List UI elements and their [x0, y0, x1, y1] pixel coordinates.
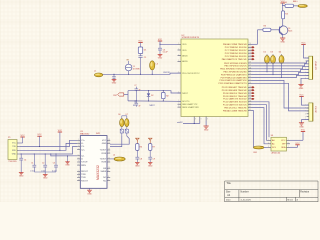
svg-text:39: 39	[249, 100, 251, 102]
svg-text:T1OUT: T1OUT	[100, 150, 107, 152]
svg-text:5: 5	[305, 116, 306, 118]
svg-text:3: 3	[305, 111, 306, 113]
svg-text:34: 34	[249, 86, 251, 88]
svg-text:1: 1	[178, 43, 179, 45]
svg-text:6: 6	[78, 158, 79, 160]
svg-text:1: 1	[178, 103, 179, 105]
svg-text:PA9 USART1TX: PA9 USART1TX	[182, 103, 198, 106]
svg-text:1: 1	[178, 106, 179, 108]
svg-text:6: 6	[288, 143, 289, 145]
svg-text:0.1uF: 0.1uF	[163, 52, 169, 54]
svg-text:GND: GND	[280, 42, 285, 44]
svg-text:Number: Number	[241, 190, 249, 193]
svg-text:PD9 FSMCD14 USART3RX: PD9 FSMCD14 USART3RX	[221, 76, 248, 79]
svg-text:11: 11	[78, 176, 80, 178]
svg-text:PC6 TIM8CH1 SDIOD6: PC6 TIM8CH1 SDIOD6	[225, 47, 248, 49]
svg-text:9: 9	[108, 170, 109, 172]
svg-text:PC11 UART4RX SDIOD3: PC11 UART4RX SDIOD3	[223, 101, 247, 104]
svg-text:5: 5	[78, 155, 79, 157]
svg-text:SDA: SDA	[281, 146, 286, 149]
svg-text:C1-: C1-	[81, 146, 85, 148]
svg-text:NRST: NRST	[150, 105, 156, 107]
svg-text:PB14 SPI2MISO TIM1CH2N: PB14 SPI2MISO TIM1CH2N	[220, 69, 247, 71]
svg-text:R2IN: R2IN	[81, 165, 86, 167]
svg-text:26: 26	[249, 62, 251, 64]
svg-text:VCC: VCC	[299, 95, 304, 97]
svg-text:40: 40	[249, 103, 251, 105]
svg-text:T2OUT: T2OUT	[81, 162, 88, 164]
svg-text:13: 13	[108, 152, 110, 154]
svg-text:4: 4	[78, 148, 79, 150]
svg-text:1: 1	[268, 139, 269, 141]
svg-text:GND: GND	[19, 176, 24, 178]
svg-text:1: 1	[178, 49, 179, 51]
svg-text:PB13 SPI2SCK I2S2CK: PB13 SPI2SCK I2S2CK	[224, 66, 247, 68]
svg-text:1: 1	[178, 60, 179, 62]
svg-text:PB12 SPI2NSS I2S2WS: PB12 SPI2NSS I2S2WS	[224, 63, 247, 65]
svg-text:T2OUT: T2OUT	[100, 159, 107, 161]
svg-text:K1: K1	[133, 105, 135, 107]
svg-text:25: 25	[249, 58, 251, 60]
svg-text:R2: R2	[166, 95, 168, 97]
svg-text:D6: D6	[118, 114, 120, 116]
svg-text:D3: D3	[271, 52, 273, 54]
svg-text:38: 38	[249, 98, 251, 100]
svg-text:7: 7	[78, 161, 79, 163]
svg-text:3: 3	[78, 145, 79, 147]
svg-text:D7: D7	[126, 114, 128, 116]
svg-text:10: 10	[108, 167, 110, 169]
svg-text:uF: uF	[138, 106, 140, 108]
svg-text:Size: Size	[226, 191, 231, 193]
svg-text:14: 14	[108, 149, 110, 151]
svg-text:8: 8	[108, 176, 109, 178]
svg-text:NRST: NRST	[182, 93, 188, 95]
svg-text:VCC: VCC	[102, 140, 107, 142]
svg-text:2: 2	[268, 143, 269, 145]
svg-text:PD0 OSCIN RTCC: PD0 OSCIN RTCC	[182, 73, 200, 75]
svg-text:VCC: VCC	[301, 130, 306, 132]
svg-text:30: 30	[249, 73, 251, 75]
svg-text:GND: GND	[148, 165, 153, 167]
svg-text:Revision: Revision	[300, 191, 310, 193]
svg-text:42: 42	[249, 109, 251, 111]
svg-text:5: 5	[288, 139, 289, 141]
svg-text:20: 20	[249, 43, 251, 45]
svg-text:VDD: VDD	[182, 50, 187, 52]
svg-text:SW1: SW1	[96, 133, 100, 135]
svg-text:9: 9	[78, 170, 79, 172]
svg-text:VDD: VDD	[182, 44, 187, 46]
svg-text:8: 8	[78, 164, 79, 166]
svg-text:32: 32	[249, 79, 251, 81]
svg-text:PA10 USART1RX: PA10 USART1RX	[182, 106, 199, 109]
svg-text:9: 9	[195, 119, 196, 121]
svg-text:31: 31	[249, 76, 251, 78]
svg-text:10: 10	[78, 173, 80, 175]
svg-text:GND: GND	[65, 165, 70, 167]
svg-text:36: 36	[249, 92, 251, 94]
svg-text:24: 24	[249, 55, 251, 57]
svg-text:37: 37	[249, 95, 251, 97]
svg-text:32.768K: 32.768K	[133, 69, 141, 71]
svg-text:7: 7	[108, 179, 109, 181]
svg-text:uF: uF	[138, 90, 140, 92]
svg-text:R6: R6	[140, 147, 142, 149]
svg-text:2: 2	[305, 108, 306, 110]
svg-text:xtal32: xtal32	[177, 121, 183, 124]
svg-text:22: 22	[249, 49, 251, 51]
svg-text:PB6 I2C1SCL TIM4CH1: PB6 I2C1SCL TIM4CH1	[224, 107, 247, 109]
svg-text:PC10 UART4TX SDIOD2: PC10 UART4TX SDIOD2	[223, 98, 247, 101]
svg-text:D2: D2	[264, 52, 266, 54]
svg-text:PD15 FSMCD1 TIM4CH4: PD15 FSMCD1 TIM4CH4	[223, 96, 248, 98]
svg-text:VCC: VCC	[281, 140, 286, 142]
svg-text:9: 9	[201, 119, 202, 121]
svg-text:PD10 FSMCD15 USART3CK: PD10 FSMCD15 USART3CK	[219, 79, 247, 82]
svg-text:C8: C8	[140, 158, 142, 160]
svg-text:C2: C2	[42, 163, 44, 165]
svg-text:RXD: RXD	[12, 150, 17, 152]
svg-text:D4: D4	[279, 52, 281, 54]
svg-text:4-Jul-2025: 4-Jul-2025	[241, 199, 252, 201]
svg-text:C3: C3	[53, 163, 55, 165]
svg-text:PB15 SPI2MOSI I2S2SD: PB15 SPI2MOSI I2S2SD	[223, 72, 247, 74]
svg-text:GND: GND	[135, 165, 140, 167]
svg-text:AT24C02: AT24C02	[272, 152, 281, 155]
svg-text:JTAG P2: JTAG P2	[314, 61, 317, 70]
svg-text:GND: GND	[12, 154, 17, 156]
svg-text:STM32F103VET6: STM32F103VET6	[182, 37, 200, 39]
svg-text:PD12 FSMCA17 TIM4CH1: PD12 FSMCA17 TIM4CH1	[222, 86, 248, 89]
svg-text:PD13 FSMCA18 TIM4CH2: PD13 FSMCA18 TIM4CH2	[222, 89, 248, 92]
svg-text:PB0 ADC12IN8 TIM3CH3: PB0 ADC12IN8 TIM3CH3	[223, 109, 248, 112]
svg-text:R2IN: R2IN	[102, 162, 107, 164]
svg-text:BOOT0: BOOT0	[182, 101, 190, 103]
svg-text:GND: GND	[158, 58, 163, 60]
svg-text:TXD RXD: TXD RXD	[8, 161, 17, 163]
svg-text:GND: GND	[87, 193, 92, 195]
svg-text:1: 1	[78, 139, 79, 141]
svg-text:PD14 FSMCD0 TIM4CH3: PD14 FSMCD0 TIM4CH3	[223, 93, 248, 95]
svg-text:16: 16	[108, 139, 110, 141]
svg-text:VCC: VCC	[20, 135, 25, 137]
svg-text:3: 3	[268, 146, 269, 148]
svg-text:VCC: VCC	[37, 134, 42, 136]
svg-text:T1IN: T1IN	[81, 177, 86, 179]
svg-text:P3 ISP: P3 ISP	[314, 106, 316, 113]
svg-text:VCC: VCC	[138, 41, 143, 43]
svg-text:11: 11	[108, 161, 110, 163]
svg-text:35: 35	[249, 89, 251, 91]
svg-text:Title: Title	[226, 182, 231, 185]
svg-text:PC9 TIM8CH4 SDIOD1: PC9 TIM8CH4 SDIOD1	[225, 56, 248, 58]
svg-text:GND: GND	[204, 130, 209, 132]
svg-text:C9: C9	[153, 158, 155, 160]
svg-text:7: 7	[288, 146, 289, 148]
svg-text:2: 2	[78, 142, 79, 144]
svg-text:VCC: VCC	[301, 43, 306, 45]
svg-text:C4: C4	[24, 160, 26, 162]
svg-text:AVDD: AVDD	[182, 60, 188, 63]
svg-text:29: 29	[249, 70, 251, 72]
svg-text:PC12 UART5TX SDIOCK: PC12 UART5TX SDIOCK	[223, 104, 247, 107]
svg-text:1: 1	[178, 54, 179, 56]
svg-text:PC7 TIM8CH2 SDIOD7: PC7 TIM8CH2 SDIOD7	[225, 50, 248, 52]
svg-text:L4: L4	[113, 155, 115, 157]
svg-text:Sheet: Sheet	[287, 198, 293, 201]
svg-text:28: 28	[249, 67, 251, 69]
svg-text:SHDN: SHDN	[101, 171, 107, 173]
svg-text:R2OUT: R2OUT	[81, 171, 89, 173]
svg-text:33: 33	[249, 82, 251, 84]
svg-text:OSC32: OSC32	[163, 72, 170, 74]
svg-text:VCC: VCC	[12, 143, 17, 145]
svg-text:Date:: Date:	[226, 198, 232, 201]
svg-text:GND: GND	[299, 126, 304, 128]
svg-text:FB1: FB1	[254, 152, 257, 154]
svg-text:TXD: TXD	[12, 146, 16, 148]
svg-text:T2IN: T2IN	[81, 174, 86, 176]
svg-text:C2-: C2-	[81, 156, 85, 158]
svg-text:PC8 TIM8CH3 SDIOD0: PC8 TIM8CH3 SDIOD0	[225, 53, 248, 55]
svg-text:PD11 FSMCA16 USART3CTS: PD11 FSMCA16 USART3CTS	[218, 82, 247, 85]
svg-text:VCC: VCC	[158, 39, 163, 41]
svg-text:D2: D2	[151, 95, 153, 97]
svg-text:R7: R7	[153, 147, 155, 149]
svg-text:23: 23	[249, 52, 251, 54]
svg-text:MAX3232: MAX3232	[80, 132, 90, 135]
svg-text:12: 12	[78, 179, 80, 181]
svg-text:2: 2	[305, 61, 306, 63]
svg-text:GND: GND	[112, 83, 117, 85]
svg-text:VCC: VCC	[58, 130, 63, 132]
svg-text:AVDD: AVDD	[182, 55, 188, 58]
svg-text:4: 4	[305, 113, 306, 115]
svg-text:PA8 USART1CK TIM1CH1: PA8 USART1CK TIM1CH1	[222, 58, 248, 61]
svg-text:MAX3232: MAX3232	[96, 165, 100, 180]
svg-text:41: 41	[249, 106, 251, 108]
svg-text:GND: GND	[299, 88, 304, 90]
svg-text:9: 9	[207, 119, 208, 121]
svg-text:C1: C1	[31, 163, 33, 165]
svg-text:R1OUT: R1OUT	[81, 180, 89, 182]
svg-text:VCC: VCC	[295, 143, 300, 145]
svg-text:GND: GND	[43, 178, 48, 180]
svg-text:21: 21	[249, 46, 251, 48]
svg-text:C5: C5	[144, 57, 146, 59]
svg-text:R1IN: R1IN	[102, 153, 107, 155]
svg-text:27: 27	[249, 65, 251, 67]
svg-text:PD8 FSMCD13 USART3TX: PD8 FSMCD13 USART3TX	[221, 73, 247, 76]
svg-text:15: 15	[108, 142, 110, 144]
svg-text:V-: V-	[81, 159, 83, 161]
svg-text:GND: GND	[102, 143, 107, 145]
svg-text:PB0 ADC12IN8 TIM3CH3: PB0 ADC12IN8 TIM3CH3	[223, 43, 248, 46]
